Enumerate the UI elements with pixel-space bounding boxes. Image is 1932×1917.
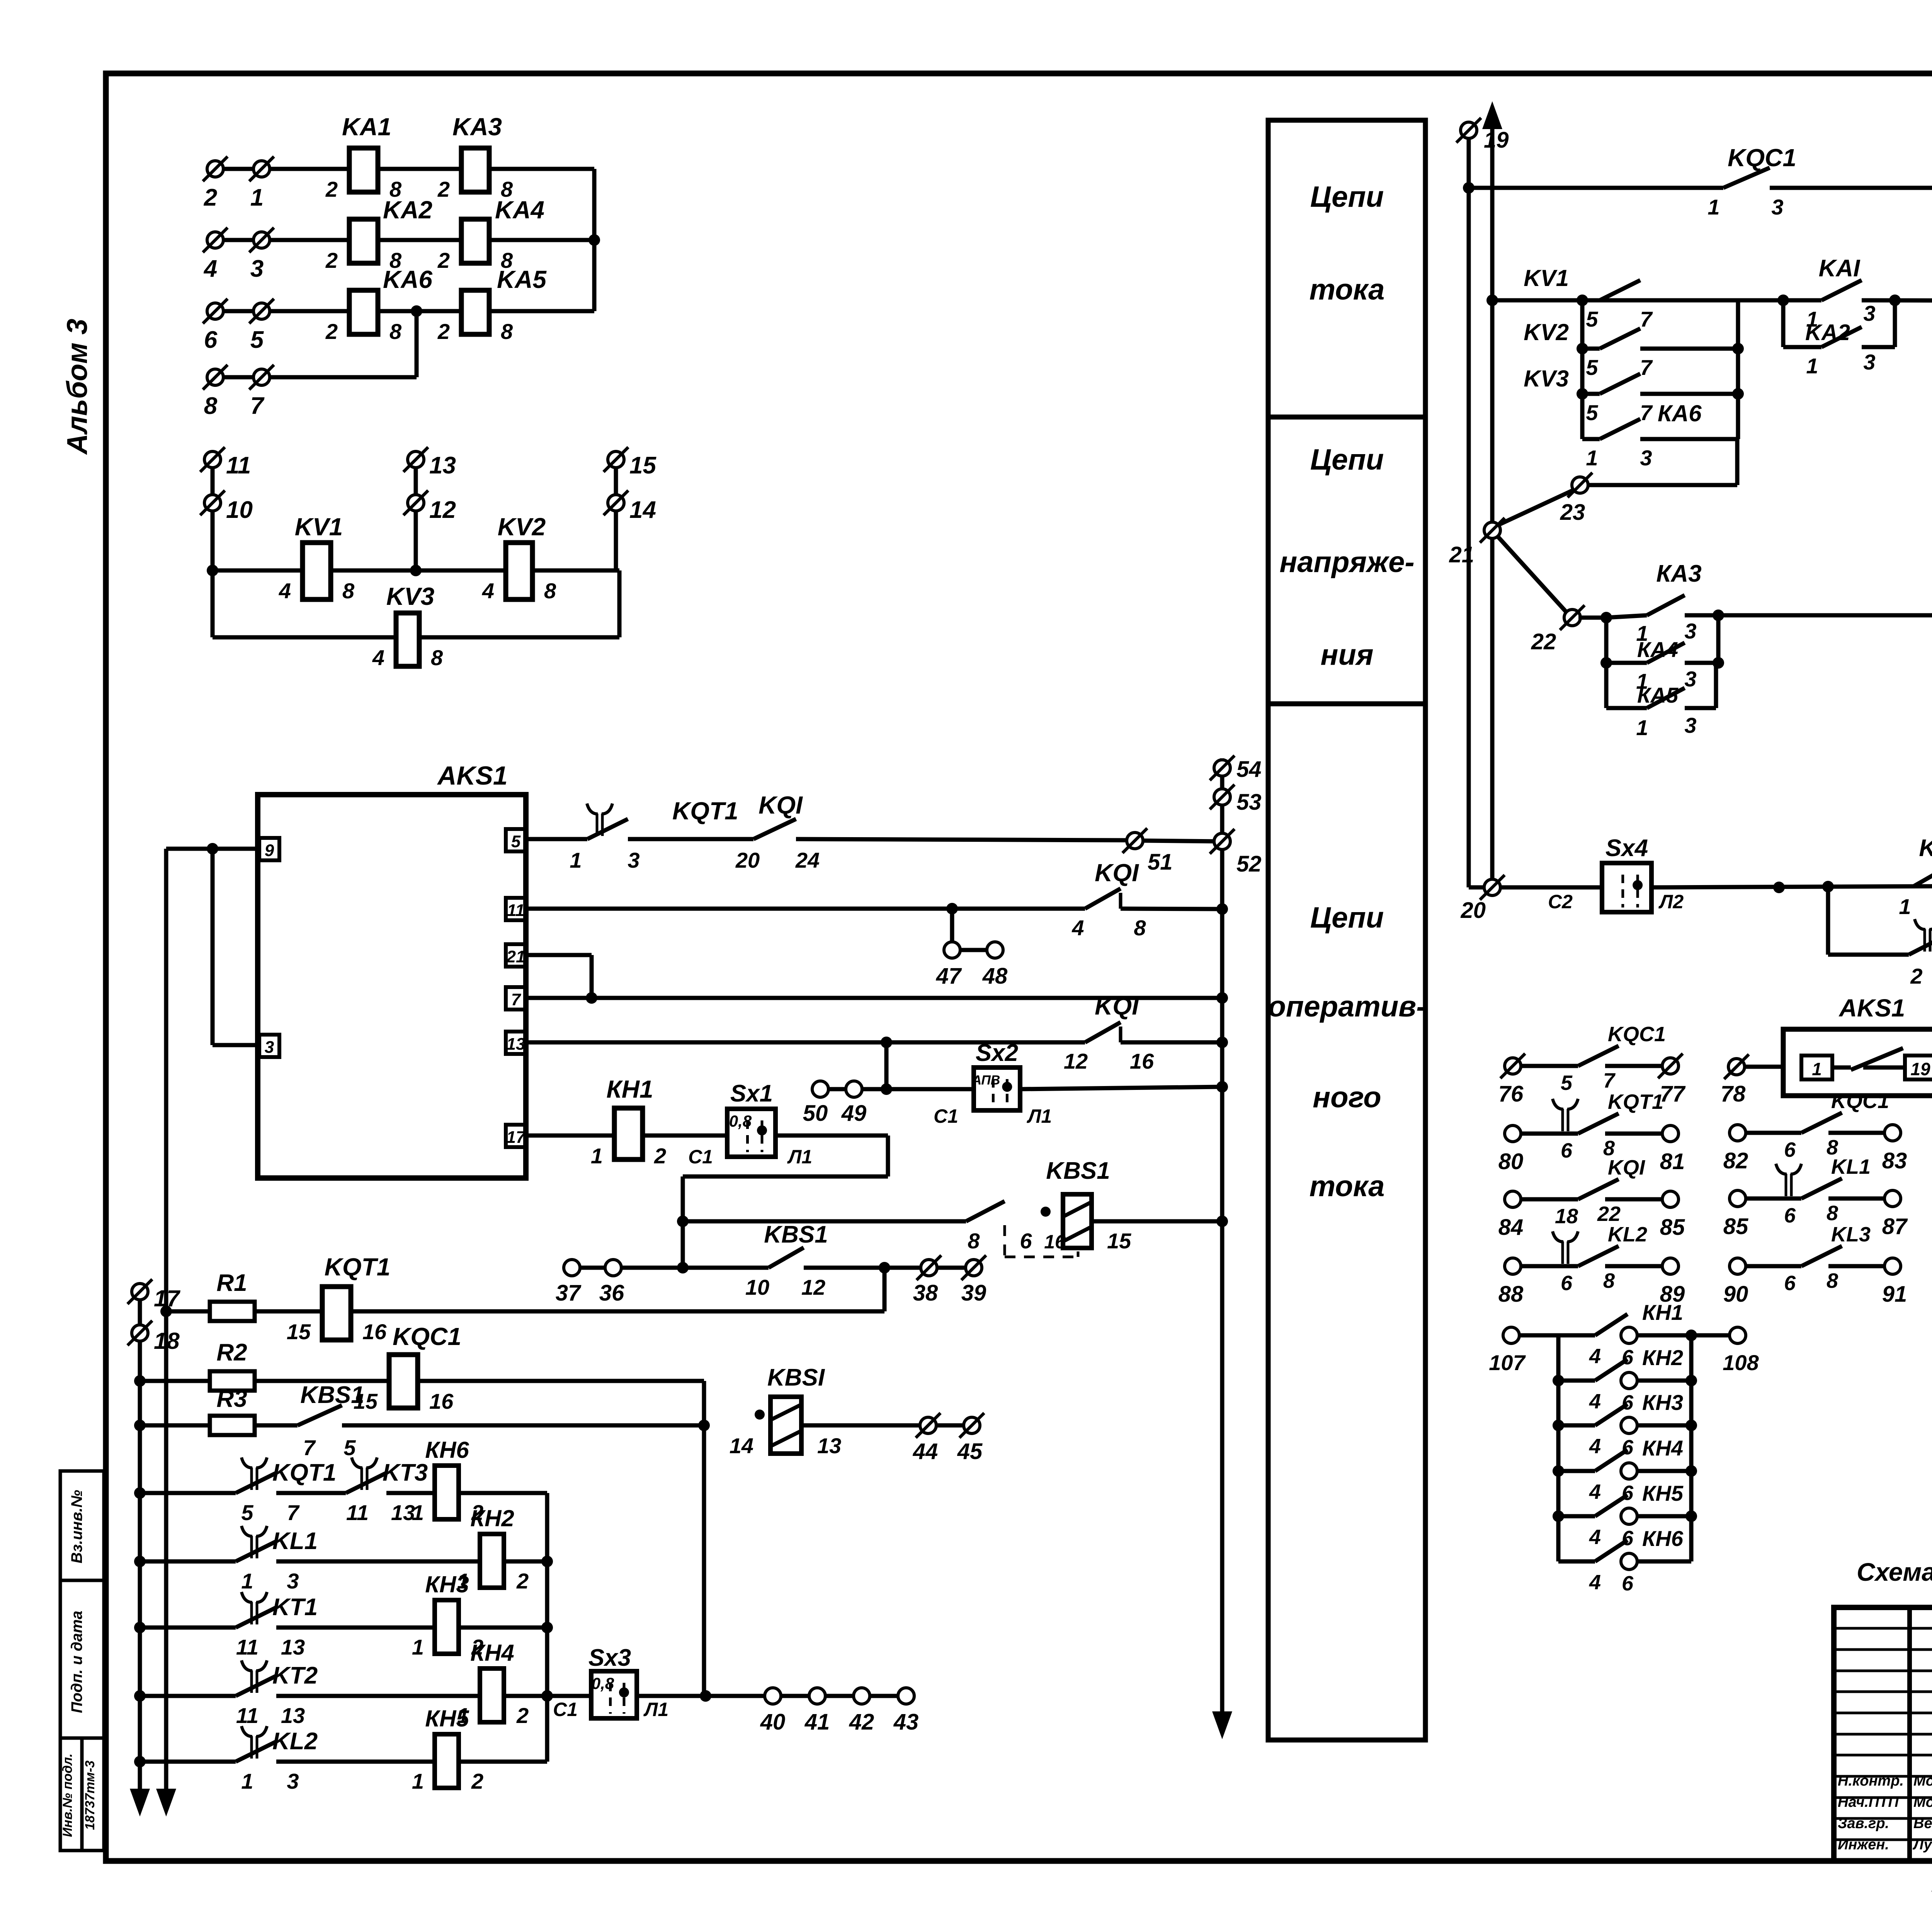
svg-text:3: 3 — [1684, 713, 1696, 737]
svg-text:3: 3 — [1640, 446, 1652, 470]
wire — [276, 1626, 435, 1630]
device AKS1 — [258, 795, 526, 1178]
svg-text:2: 2 — [325, 248, 338, 272]
svg-text:90: 90 — [1723, 1282, 1748, 1307]
svg-text:6: 6 — [1622, 1391, 1634, 1414]
svg-text:KL2: KL2 — [272, 1728, 318, 1755]
svg-text:6: 6 — [204, 327, 218, 353]
terminal 44 — [920, 1417, 936, 1433]
svg-text:КН5: КН5 — [425, 1706, 469, 1731]
contact KA5 bypass — [1604, 663, 1609, 708]
svg-text:4: 4 — [1071, 916, 1084, 940]
svg-text:KL3: KL3 — [1831, 1223, 1871, 1246]
svg-text:2: 2 — [437, 319, 450, 344]
contact KT1 11-13 — [250, 1602, 253, 1624]
svg-text:KV2: KV2 — [498, 513, 546, 541]
svg-text:КН3: КН3 — [1642, 1390, 1683, 1415]
wire to KH right bus — [504, 1694, 547, 1698]
right bus of KA group — [592, 169, 597, 311]
test block Sx3 — [591, 1671, 637, 1718]
contact KBS1 7-5 — [298, 1405, 342, 1425]
relay coil КН6 — [435, 1466, 459, 1519]
contact KL3 1-3 — [1913, 867, 1932, 887]
resistor R1 — [166, 1309, 210, 1314]
AKS1 pin 5 — [506, 829, 526, 851]
svg-text:22: 22 — [1597, 1202, 1621, 1226]
relay coil KBS1 (hatched) — [1063, 1194, 1092, 1248]
svg-text:1: 1 — [412, 1635, 424, 1659]
svg-text:5: 5 — [250, 327, 264, 353]
column box: current circuits — [1268, 120, 1425, 417]
contact KL3 6-8 — [1746, 1264, 1801, 1268]
svg-text:3: 3 — [1863, 301, 1875, 325]
relay coil КН5 — [435, 1734, 459, 1788]
wire — [796, 839, 1127, 840]
contact KQ1 12-16 — [1085, 1022, 1121, 1042]
svg-text:7: 7 — [1640, 307, 1653, 331]
svg-text:КН4: КН4 — [470, 1640, 514, 1666]
Sx4 lower row (C2) — [1469, 885, 1484, 890]
wire to KH right bus — [459, 1491, 547, 1495]
svg-text:ния: ния — [1320, 638, 1373, 671]
wire — [1770, 186, 1932, 190]
svg-text:18737тм-3: 18737тм-3 — [83, 1760, 97, 1830]
contact KL1 1-3 — [250, 1536, 253, 1558]
svg-text:Мохлино: Мохлино — [1913, 1773, 1932, 1789]
relay coil KH1 — [614, 1108, 643, 1159]
svg-text:8: 8 — [431, 645, 443, 670]
contact KL2 1-3 — [250, 1736, 253, 1759]
svg-text:3: 3 — [287, 1769, 299, 1793]
svg-text:12: 12 — [1064, 1049, 1088, 1073]
contact KV1 5-7 — [1582, 298, 1600, 303]
svg-text:1: 1 — [1812, 1059, 1822, 1079]
svg-text:КН6: КН6 — [1642, 1526, 1684, 1551]
svg-text:10: 10 — [745, 1275, 769, 1299]
wire — [937, 1266, 966, 1270]
svg-text:KQC1: KQC1 — [1728, 144, 1796, 172]
svg-text:KA3: KA3 — [452, 113, 502, 141]
left margin stamp boxes — [60, 1471, 104, 1580]
svg-text:Альбом 3: Альбом 3 — [61, 319, 93, 455]
relay coil KA1 — [349, 148, 378, 192]
svg-text:13: 13 — [281, 1635, 305, 1659]
svg-text:24: 24 — [795, 848, 820, 872]
svg-text:3: 3 — [250, 255, 264, 282]
svg-text:KQI: KQI — [1095, 859, 1139, 887]
terminal 51 — [1127, 833, 1143, 849]
svg-text:10: 10 — [226, 497, 253, 523]
svg-text:6: 6 — [1561, 1139, 1573, 1162]
terminal 38 — [921, 1260, 937, 1276]
svg-text:4: 4 — [1589, 1390, 1601, 1413]
terminal 91 — [1884, 1258, 1901, 1274]
wire pin9 to left bus B — [166, 847, 258, 851]
svg-text:Нач.ПТП: Нач.ПТП — [1838, 1794, 1899, 1810]
svg-text:91: 91 — [1882, 1282, 1907, 1307]
svg-text:7: 7 — [287, 1500, 300, 1525]
svg-text:81: 81 — [1660, 1149, 1685, 1174]
svg-text:1: 1 — [241, 1769, 253, 1793]
svg-text:41: 41 — [804, 1709, 830, 1735]
contact KL2 6-8 — [1521, 1264, 1578, 1268]
svg-text:Инжен.: Инжен. — [1838, 1837, 1889, 1853]
terminal 50 — [812, 1081, 828, 1097]
wire row terminals 8-7 — [215, 375, 417, 380]
svg-text:1: 1 — [1899, 894, 1911, 919]
contact КН4 4-6 — [1558, 1469, 1595, 1473]
contact KV2 5-7 — [1582, 347, 1600, 351]
svg-text:2: 2 — [204, 184, 217, 211]
svg-text:9: 9 — [265, 841, 274, 860]
svg-text:14: 14 — [629, 497, 656, 523]
svg-text:Зав.гр.: Зав.гр. — [1838, 1815, 1889, 1832]
svg-text:11: 11 — [226, 452, 251, 479]
wire row KA1/KA3 — [215, 167, 349, 171]
wire — [378, 167, 461, 171]
svg-text:KT1: KT1 — [272, 1594, 318, 1621]
relay coil KV3 — [396, 613, 419, 666]
svg-text:4: 4 — [372, 645, 384, 670]
wire — [276, 1559, 480, 1564]
node junction — [378, 309, 461, 313]
wire — [804, 1266, 921, 1270]
dashed link — [1003, 1225, 1006, 1257]
wire row KV1/KV2 — [213, 569, 303, 573]
svg-text:50: 50 — [803, 1101, 828, 1126]
relay coil KA6 — [349, 290, 378, 334]
svg-text:Инв.№ подл.: Инв.№ подл. — [60, 1754, 75, 1837]
svg-text:напряже-: напряже- — [1279, 546, 1414, 579]
svg-text:19: 19 — [1484, 128, 1509, 153]
contact KQ1 20-24 — [753, 819, 796, 839]
relay coil KA4 — [461, 219, 489, 263]
wire — [781, 1694, 809, 1698]
svg-text:43: 43 — [893, 1709, 919, 1735]
terminal 1 — [253, 161, 270, 177]
svg-text:KT2: KT2 — [272, 1662, 318, 1689]
relay coil KV1 — [303, 543, 331, 599]
svg-text:1: 1 — [1708, 195, 1719, 219]
svg-text:53: 53 — [1236, 790, 1262, 815]
terminal 83 — [1884, 1125, 1901, 1141]
resistor R2 — [140, 1379, 210, 1383]
svg-text:8: 8 — [1827, 1202, 1838, 1225]
svg-text:13: 13 — [507, 1035, 526, 1054]
wire — [140, 1694, 236, 1698]
svg-text:КА6: КА6 — [1658, 400, 1702, 426]
svg-text:5: 5 — [344, 1435, 356, 1460]
svg-text:8: 8 — [1827, 1269, 1838, 1292]
svg-text:11: 11 — [236, 1635, 259, 1659]
terminal 41 — [809, 1688, 825, 1704]
terminal 78 — [1728, 1059, 1745, 1075]
terminal 22 — [1564, 609, 1580, 626]
svg-text:7: 7 — [1640, 400, 1653, 425]
svg-text:16: 16 — [362, 1319, 387, 1344]
svg-text:44: 44 — [913, 1439, 938, 1464]
wire — [1640, 298, 1738, 303]
svg-text:85: 85 — [1660, 1215, 1685, 1240]
contact КН1 4-6 — [1558, 1333, 1595, 1338]
svg-text:7: 7 — [511, 990, 522, 1009]
contact KL1 6-8 — [1746, 1197, 1801, 1201]
svg-text:7: 7 — [250, 393, 265, 419]
svg-text:6: 6 — [1784, 1138, 1796, 1161]
wire 23 to KA6 row — [1587, 483, 1737, 487]
svg-text:8: 8 — [204, 393, 218, 419]
bus B — [164, 849, 168, 1793]
svg-text:Sx4: Sx4 — [1605, 835, 1648, 861]
svg-text:48: 48 — [982, 964, 1008, 989]
centre bus of operative circuits — [1220, 758, 1225, 1716]
wire — [621, 1266, 769, 1270]
svg-text:5: 5 — [1586, 307, 1598, 331]
wire pin5 row — [526, 837, 587, 841]
KA3 row to KT2 — [1578, 616, 1606, 620]
wire — [1121, 1040, 1222, 1045]
column box: voltage circuits — [1268, 417, 1425, 704]
svg-text:R1: R1 — [216, 1270, 247, 1296]
relay coil KV2 — [506, 543, 532, 599]
svg-text:2: 2 — [1910, 964, 1922, 988]
wire — [1745, 1065, 1783, 1069]
terminal 3 — [253, 232, 270, 248]
wire — [532, 569, 619, 573]
terminal 81 — [1662, 1125, 1679, 1142]
svg-text:Цепи: Цепи — [1310, 180, 1384, 213]
wire Sx3 row — [547, 1694, 591, 1698]
contact КН6 4-6 — [1558, 1559, 1595, 1564]
svg-text:2: 2 — [516, 1703, 529, 1728]
svg-text:6: 6 — [1622, 1527, 1634, 1550]
wire pin13 row — [526, 1040, 1085, 1045]
svg-text:78: 78 — [1721, 1081, 1746, 1107]
wire — [870, 1694, 898, 1698]
svg-text:4: 4 — [1589, 1345, 1601, 1368]
svg-text:KV1: KV1 — [1524, 265, 1569, 291]
svg-text:83: 83 — [1882, 1148, 1907, 1173]
branch to Sx2 row — [884, 1042, 889, 1089]
svg-text:37: 37 — [556, 1280, 582, 1306]
svg-text:KT3: KT3 — [383, 1459, 428, 1486]
svg-text:3: 3 — [1684, 619, 1696, 643]
svg-text:47: 47 — [936, 964, 962, 989]
relay coil KQT1 — [322, 1287, 351, 1340]
AKS1 pin 11 — [506, 898, 526, 920]
wire pin17 row — [526, 1134, 614, 1138]
svg-text:KQT1: KQT1 — [1608, 1090, 1663, 1113]
wire — [1651, 886, 1932, 887]
svg-text:Л1: Л1 — [1027, 1105, 1052, 1127]
wire — [580, 1266, 605, 1270]
svg-text:КА3: КА3 — [1656, 560, 1701, 587]
svg-text:Л1: Л1 — [643, 1699, 668, 1720]
wire — [140, 1559, 236, 1564]
svg-text:4: 4 — [482, 579, 494, 603]
svg-text:4: 4 — [1589, 1435, 1601, 1458]
contact KQT1 5-7 — [250, 1468, 253, 1490]
svg-text:76: 76 — [1498, 1081, 1524, 1107]
svg-text:80: 80 — [1498, 1149, 1524, 1174]
svg-text:КН5: КН5 — [1642, 1481, 1684, 1505]
wire — [936, 1423, 964, 1428]
relay coil KQC1 — [389, 1355, 418, 1408]
contact KQC1 6-8 — [1746, 1131, 1801, 1135]
contact KL2 2-4 bypass — [1826, 887, 1830, 955]
wire — [255, 1309, 322, 1314]
wire — [1121, 909, 1222, 909]
wire 21 to 22 — [1498, 536, 1566, 612]
wire R2 row to corner — [418, 1379, 704, 1383]
wire to right bus — [489, 309, 594, 313]
svg-text:23: 23 — [1560, 500, 1585, 525]
wire 21 to 23 — [1498, 490, 1573, 525]
terminal 85 — [1662, 1191, 1679, 1207]
svg-text:KV2: KV2 — [1524, 319, 1569, 345]
svg-text:4: 4 — [1589, 1525, 1601, 1549]
svg-text:14: 14 — [730, 1433, 753, 1458]
svg-text:13: 13 — [281, 1703, 305, 1728]
svg-text:Л1: Л1 — [787, 1146, 812, 1168]
svg-text:KBS1: KBS1 — [1046, 1158, 1110, 1184]
contact КН2 4-6 — [1558, 1379, 1595, 1383]
svg-text:Верницкая: Верницкая — [1913, 1815, 1932, 1832]
terminal 88 — [1505, 1258, 1521, 1274]
terminal 36 — [605, 1260, 621, 1276]
wire loop from Sx1 down-left — [776, 1134, 888, 1138]
svg-text:KV1: KV1 — [295, 513, 343, 541]
wire — [140, 1491, 236, 1495]
svg-text:5: 5 — [511, 832, 521, 851]
node 21 — [1484, 522, 1500, 538]
contact KBS1 8-6 — [966, 1201, 1005, 1221]
svg-text:40: 40 — [760, 1709, 786, 1735]
svg-text:KQT1: KQT1 — [672, 797, 738, 825]
wire KQC1 row — [1469, 186, 1723, 190]
svg-text:16: 16 — [429, 1389, 454, 1413]
terminal 42 — [854, 1688, 870, 1704]
terminal 7 — [253, 369, 270, 385]
terminal 47 — [944, 942, 960, 958]
svg-text:КН1: КН1 — [606, 1075, 653, 1103]
terminal 8 — [207, 369, 223, 385]
svg-text:Лукьянова: Лукьянова — [1912, 1837, 1932, 1853]
terminal 12 — [408, 495, 424, 511]
wire to right bus — [489, 238, 594, 242]
svg-text:51: 51 — [1148, 850, 1173, 875]
svg-text:KBS1: KBS1 — [300, 1382, 364, 1408]
wire — [643, 1134, 727, 1138]
svg-text:2: 2 — [654, 1144, 666, 1168]
contact KA6 1-3 — [1582, 437, 1600, 441]
svg-text:KL2: KL2 — [1608, 1223, 1647, 1246]
svg-text:Sx2: Sx2 — [976, 1040, 1018, 1066]
stub to terminals 47 48 — [950, 909, 954, 942]
test block Sx4 lower — [1602, 863, 1651, 912]
terminal 49 — [846, 1081, 862, 1097]
relay coil КН4 — [480, 1668, 504, 1722]
column box: operative current circuits — [1268, 704, 1425, 1740]
resistor R3 — [140, 1423, 210, 1428]
vertical wire 1822 down to Sx3 row — [702, 1425, 706, 1696]
terminal 54 — [1214, 760, 1230, 776]
wire — [825, 1694, 854, 1698]
svg-text:3: 3 — [1771, 195, 1783, 219]
wire — [276, 1760, 435, 1764]
KH ladder 107/108 — [1503, 1327, 1519, 1343]
terminal 40 — [765, 1688, 781, 1704]
svg-text:KQT1: KQT1 — [325, 1253, 391, 1281]
wire — [1640, 437, 1738, 441]
svg-text:5: 5 — [1586, 400, 1598, 425]
terminal 82 — [1730, 1125, 1746, 1141]
AKS1 pin 17 — [506, 1125, 526, 1147]
wire — [140, 1760, 236, 1764]
svg-text:тока: тока — [1310, 1170, 1385, 1203]
svg-text:1: 1 — [591, 1144, 603, 1168]
KV3 branch wires — [211, 570, 215, 637]
svg-text:12: 12 — [429, 497, 456, 523]
terminal 20 — [1484, 879, 1500, 896]
svg-text:КН6: КН6 — [425, 1437, 469, 1463]
wire — [628, 837, 753, 841]
svg-text:16: 16 — [1130, 1049, 1154, 1073]
terminal 80 — [1505, 1125, 1521, 1142]
svg-text:4: 4 — [203, 255, 217, 282]
svg-text:KQI: KQI — [1095, 992, 1139, 1020]
terminal 87 — [1884, 1190, 1901, 1207]
svg-text:39: 39 — [961, 1280, 986, 1306]
svg-text:Вз.инв.№: Вз.инв.№ — [68, 1490, 85, 1563]
svg-text:КА4: КА4 — [1637, 637, 1678, 662]
relay coil КН3 — [435, 1600, 459, 1654]
wire — [1640, 392, 1738, 396]
terminal 76 — [1505, 1058, 1521, 1074]
svg-text:С2: С2 — [1548, 891, 1573, 913]
wire — [419, 635, 619, 640]
svg-text:KA2: KA2 — [383, 196, 432, 224]
contact KQT1 6-8 — [1521, 1132, 1578, 1136]
svg-text:3: 3 — [287, 1569, 299, 1593]
wire — [1020, 1087, 1222, 1089]
svg-text:21: 21 — [1449, 542, 1474, 567]
terminal 5 — [253, 303, 270, 319]
svg-text:С1: С1 — [688, 1146, 713, 1168]
svg-text:6: 6 — [1622, 1572, 1634, 1595]
svg-text:Цепи: Цепи — [1310, 443, 1384, 476]
test block Sx1 — [727, 1109, 776, 1157]
svg-text:KQC1: KQC1 — [393, 1323, 461, 1350]
svg-text:11: 11 — [346, 1500, 369, 1525]
svg-text:KQI: KQI — [759, 791, 803, 819]
AKS1 pin 7 — [506, 987, 526, 1010]
svg-text:KA4: KA4 — [495, 196, 544, 224]
wire — [1143, 841, 1222, 841]
svg-text:КН2: КН2 — [470, 1505, 514, 1531]
terminal 89 — [1662, 1258, 1679, 1274]
svg-text:36: 36 — [599, 1280, 624, 1306]
svg-text:Sx1: Sx1 — [730, 1080, 773, 1107]
svg-text:1: 1 — [250, 184, 264, 211]
contact KQC1 5-7 — [1521, 1064, 1578, 1068]
svg-text:15: 15 — [1107, 1229, 1131, 1253]
up-arrow bus B — [1482, 101, 1502, 129]
terminal 53 — [1214, 789, 1230, 805]
AKS1 pin 9 — [259, 838, 279, 860]
svg-text:KQC1: KQC1 — [1831, 1090, 1889, 1113]
svg-text:2: 2 — [437, 248, 450, 272]
